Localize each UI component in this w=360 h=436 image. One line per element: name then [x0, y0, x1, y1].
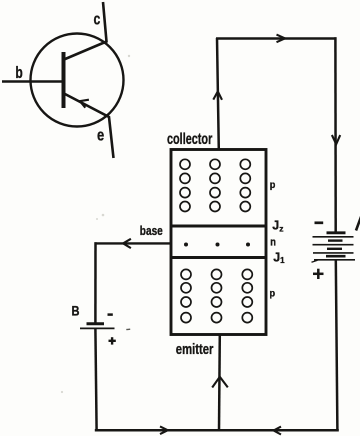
svg-text:n: n — [270, 236, 276, 248]
transistor Q1 base lead wire — [2, 80, 64, 82]
left wire upper (base wire down to battery B) — [94, 242, 97, 322]
junction J1 line — [171, 256, 266, 259]
battery A plates — [312, 233, 356, 262]
collector p-region holes (12 circles) — [180, 159, 250, 211]
emitter wire (block bottom to bottom rail) — [218, 335, 221, 431]
collector wire (vertical, block top to top rail) — [217, 38, 219, 150]
scan noise dash right of battery B — [126, 328, 130, 330]
battery B plates — [80, 324, 115, 329]
arrow right on bottom rail (left half) — [160, 426, 168, 434]
battery A minus sign — [315, 221, 324, 224]
battery A plus sign — [313, 269, 324, 279]
label A (clipped at right edge) — [356, 218, 360, 231]
arrow down on right wire — [332, 135, 340, 144]
arrow up on collector wire — [213, 91, 222, 99]
arrow left on bottom rail (right half) — [274, 427, 281, 435]
svg-text:c: c — [94, 10, 101, 28]
transistor Q1 emitter lead — [64, 94, 114, 159]
svg-text:Jz: Jz — [272, 219, 283, 234]
base wire (block left to left rail) — [95, 242, 172, 244]
svg-text:p: p — [270, 179, 276, 191]
arrow up on emitter wire — [212, 377, 228, 388]
transistor Q1 collector lead — [64, 2, 107, 60]
right wire upper (top rail down to battery A) — [334, 37, 337, 232]
top rail wire — [216, 37, 337, 40]
svg-text:b: b — [15, 64, 22, 82]
svg-text:p: p — [270, 287, 276, 299]
pnp block outline — [171, 150, 266, 335]
bottom rail wire — [95, 429, 339, 432]
svg-text:J1: J1 — [273, 250, 285, 265]
transistor Q1 emitter arrow (points into base: pnp) — [80, 100, 89, 108]
arrow left on base wire — [123, 239, 131, 248]
transistor Q1 circle — [31, 34, 124, 127]
svg-text:B: B — [72, 303, 80, 318]
svg-text:collector: collector — [167, 131, 212, 148]
svg-text:emitter: emitter — [176, 341, 214, 358]
right wire lower (battery A to bottom rail) — [336, 260, 338, 431]
battery B plus sign — [109, 337, 116, 344]
junction J2 line — [171, 225, 266, 228]
svg-text:e: e — [97, 126, 104, 144]
n-region electron dots — [184, 243, 250, 247]
left wire lower (battery B to bottom rail) — [95, 328, 96, 430]
battery B minus sign — [108, 313, 113, 316]
arrow right on top rail — [277, 35, 286, 43]
emitter p-region holes (12 circles) — [181, 269, 252, 322]
transistor Q1 base bar — [62, 52, 66, 108]
svg-text:base: base — [140, 223, 163, 238]
faint scan smudges — [61, 55, 130, 393]
